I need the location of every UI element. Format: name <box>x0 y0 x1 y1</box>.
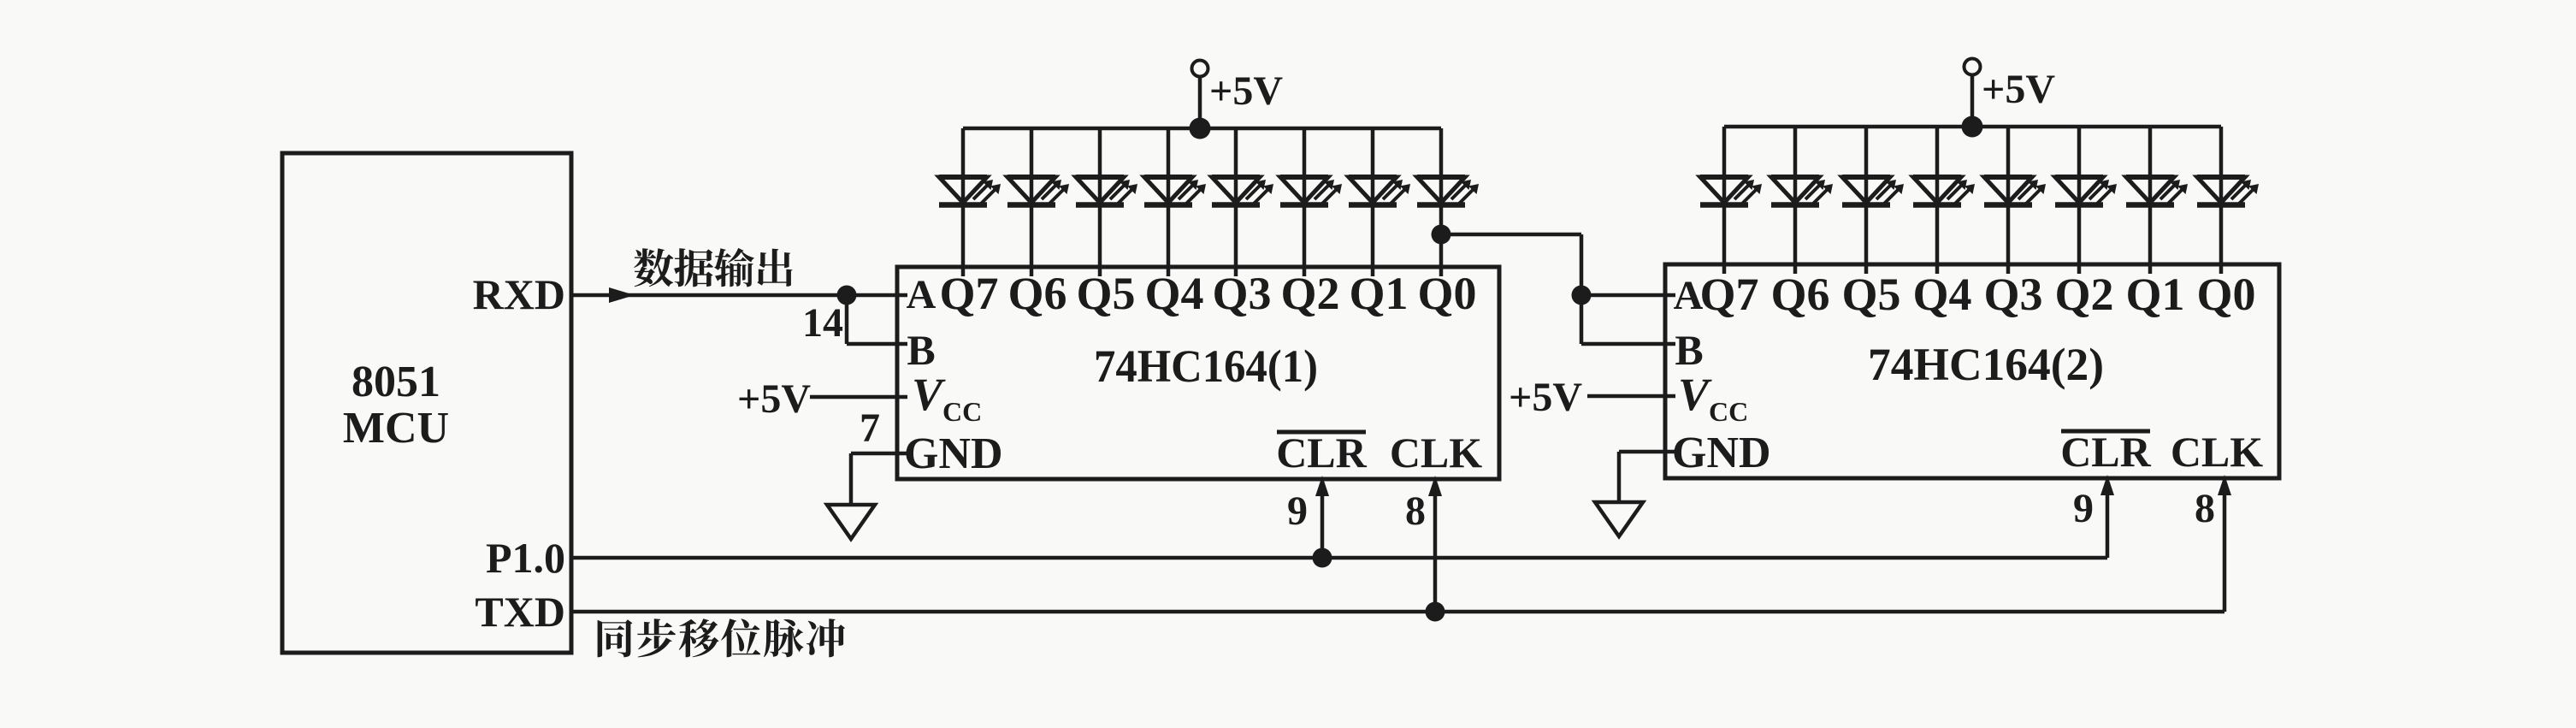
svg-text:Q4: Q4 <box>1144 268 1203 319</box>
svg-text:7: 7 <box>860 405 880 451</box>
svg-text:GND: GND <box>1672 429 1771 477</box>
svg-text:Q1: Q1 <box>1349 268 1408 319</box>
svg-text:8: 8 <box>1405 488 1426 534</box>
svg-text:14: 14 <box>802 300 843 346</box>
svg-text:Q3: Q3 <box>1212 268 1271 319</box>
svg-text:Q4: Q4 <box>1912 269 1971 320</box>
svg-text:VCC: VCC <box>1678 369 1748 427</box>
svg-text:Q5: Q5 <box>1076 268 1135 319</box>
svg-text:+5V: +5V <box>1209 68 1283 114</box>
svg-text:TXD: TXD <box>475 588 565 636</box>
svg-text:CLR: CLR <box>2060 428 2151 476</box>
svg-text:A: A <box>1674 273 1704 318</box>
svg-text:8051: 8051 <box>352 358 440 406</box>
svg-text:CLK: CLK <box>2171 428 2263 476</box>
svg-text:+5V: +5V <box>1982 67 2055 112</box>
svg-text:74HC164(1): 74HC164(1) <box>1094 340 1318 392</box>
svg-text:RXD: RXD <box>473 270 565 318</box>
svg-text:Q6: Q6 <box>1770 269 1829 320</box>
svg-text:Q0: Q0 <box>2196 269 2255 320</box>
svg-text:Q0: Q0 <box>1417 268 1476 319</box>
svg-text:74HC164(2): 74HC164(2) <box>1868 339 2104 390</box>
svg-text:B: B <box>1675 326 1703 374</box>
svg-text:B: B <box>907 326 935 374</box>
svg-text:P1.0: P1.0 <box>486 534 565 582</box>
svg-text:CLK: CLK <box>1390 429 1482 476</box>
svg-text:8: 8 <box>2195 486 2215 531</box>
svg-text:Q7: Q7 <box>1699 269 1758 320</box>
svg-text:Q2: Q2 <box>2054 269 2113 320</box>
svg-text:+5V: +5V <box>1509 375 1582 420</box>
svg-text:A: A <box>907 272 936 317</box>
svg-text:Q3: Q3 <box>1983 269 2042 320</box>
svg-text:Q5: Q5 <box>1841 269 1900 320</box>
svg-text:MCU: MCU <box>343 404 449 453</box>
svg-text:Q7: Q7 <box>939 268 998 319</box>
svg-text:+5V: +5V <box>737 376 811 422</box>
svg-text:9: 9 <box>1287 488 1308 534</box>
svg-text:VCC: VCC <box>912 369 982 427</box>
svg-text:Q6: Q6 <box>1007 268 1066 319</box>
svg-text:Q1: Q1 <box>2125 269 2184 320</box>
svg-text:9: 9 <box>2073 486 2094 531</box>
svg-text:GND: GND <box>904 429 1003 478</box>
svg-text:Q2: Q2 <box>1280 268 1339 319</box>
svg-text:CLR: CLR <box>1276 429 1367 476</box>
